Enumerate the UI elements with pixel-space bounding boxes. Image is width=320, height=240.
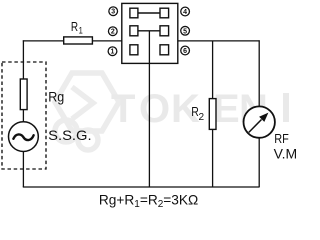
resistor R2 [209, 99, 216, 130]
wire DUT to meter branch [178, 40, 260, 42]
wire top horizontal left [23, 40, 64, 42]
resistor Rg [20, 79, 27, 110]
svg-text:6: 6 [183, 48, 187, 55]
svg-text:3: 3 [111, 9, 115, 16]
svg-text:5: 5 [183, 28, 187, 35]
wire meter to bottom [258, 138, 260, 187]
pin 1 [108, 47, 117, 56]
wire Rg to source [22, 110, 24, 122]
DUT pads pin1 and pin6 [130, 45, 169, 55]
DUT pads pin3-pin4 with link [130, 8, 169, 18]
svg-text:2: 2 [199, 112, 205, 123]
DUT filter network box [122, 3, 178, 63]
formula label Rg+R1=R2=3Kohm [99, 192, 198, 210]
svg-text:1: 1 [111, 49, 115, 56]
wire left vertical upper [22, 40, 24, 79]
svg-text:RF: RF [274, 131, 289, 146]
wire R2 branch upper [212, 41, 214, 99]
svg-text:4: 4 [183, 9, 187, 16]
svg-text:O: O [139, 87, 170, 131]
svg-text:V.M: V.M [274, 146, 296, 161]
meter needle [249, 120, 262, 133]
svg-text:Rg: Rg [48, 89, 64, 104]
pin 3 [109, 7, 118, 16]
dashed enclosure of signal generator [2, 62, 46, 169]
pin 2 [108, 27, 117, 36]
wire DUT center tap to bottom [148, 31, 150, 187]
svg-text:S.S.G.: S.S.G. [48, 127, 91, 143]
svg-text:1: 1 [79, 26, 83, 37]
wire R2 branch lower [212, 129, 214, 187]
DUT pads pin2-pin5 with link [130, 26, 169, 36]
label R1 [71, 20, 83, 37]
AC source S.S.G. [9, 122, 39, 152]
pin 6 [181, 46, 190, 55]
wire meter branch upper [258, 40, 260, 106]
wire source to bottom [22, 152, 24, 188]
wire bottom bus [23, 186, 260, 188]
svg-text:2: 2 [111, 29, 115, 36]
label R2 [191, 104, 204, 123]
pin 4 [181, 7, 190, 16]
resistor R1 [64, 37, 93, 44]
pin 5 [181, 26, 190, 35]
wire R1 to DUT [92, 40, 121, 42]
svg-text:E: E [213, 87, 240, 131]
RF voltmeter meter body [244, 106, 275, 137]
svg-text:R: R [71, 20, 78, 34]
svg-text:T: T [111, 87, 135, 131]
